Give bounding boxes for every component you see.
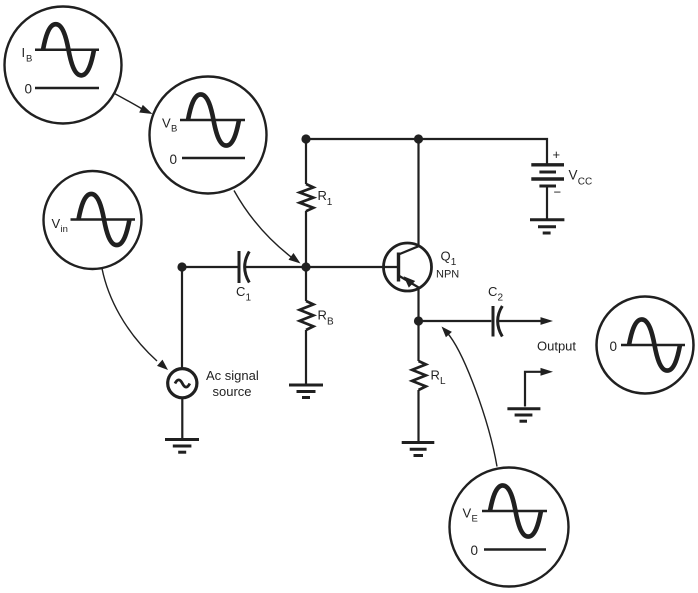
svg-text:NPN: NPN bbox=[436, 269, 459, 281]
node base (junction R1/RB/base) bbox=[301, 262, 310, 271]
wire ac source to ground bbox=[181, 399, 183, 439]
svg-text:0: 0 bbox=[610, 339, 618, 354]
waveform circle output bbox=[597, 297, 694, 394]
label RL bbox=[431, 368, 447, 388]
svg-text:V: V bbox=[52, 216, 61, 231]
wire input node to C1 bbox=[182, 266, 238, 268]
node B (top of collector) bbox=[414, 134, 423, 143]
label VCC bbox=[569, 168, 593, 188]
svg-text:I: I bbox=[22, 45, 26, 60]
svg-text:B: B bbox=[327, 317, 334, 328]
wire emitter node to C2 bbox=[419, 320, 492, 322]
capacitor C2 bbox=[492, 306, 495, 337]
svg-text:1: 1 bbox=[327, 197, 333, 208]
label Q1 NPN bbox=[436, 249, 459, 281]
svg-text:L: L bbox=[440, 376, 446, 387]
svg-text:CC: CC bbox=[578, 177, 592, 188]
transistor Q1 bbox=[384, 243, 432, 291]
label C2 bbox=[488, 284, 504, 304]
svg-text:E: E bbox=[472, 514, 478, 525]
wire collector bbox=[417, 139, 419, 246]
label + bbox=[553, 147, 561, 162]
wire top rail with corner to battery bbox=[306, 139, 547, 164]
svg-text:V: V bbox=[569, 168, 578, 183]
label R1 bbox=[318, 188, 333, 208]
waveform circle VE bbox=[450, 468, 569, 587]
arrow IB to VB bbox=[115, 94, 143, 109]
svg-text:B: B bbox=[26, 54, 32, 65]
svg-text:1: 1 bbox=[451, 257, 457, 268]
svg-text:0: 0 bbox=[471, 543, 479, 558]
svg-text:0: 0 bbox=[170, 152, 178, 167]
resistor RL bbox=[412, 361, 426, 390]
svg-text:+: + bbox=[553, 147, 561, 162]
wire RL top lead bbox=[417, 321, 419, 361]
resistor RB bbox=[300, 301, 314, 330]
svg-text:C: C bbox=[236, 284, 245, 299]
ground under RB bbox=[289, 385, 323, 398]
wire RL bottom lead bbox=[417, 390, 419, 442]
waveform circle VB bbox=[150, 77, 267, 194]
capacitor C1 bbox=[238, 251, 241, 283]
wire C1 to base bbox=[245, 266, 398, 268]
label Ac signal source bbox=[206, 368, 259, 399]
svg-text:C: C bbox=[488, 284, 497, 299]
wire battery to ground bbox=[546, 186, 548, 219]
wire R1 bottom lead bbox=[305, 211, 307, 267]
ground under ac source bbox=[165, 440, 199, 453]
wire RB bottom lead bbox=[305, 330, 307, 385]
svg-text:Output: Output bbox=[537, 339, 576, 354]
label Output bbox=[537, 339, 576, 354]
node A (top of R1) bbox=[301, 134, 310, 143]
svg-text:1: 1 bbox=[246, 293, 252, 304]
svg-text:source: source bbox=[213, 384, 252, 399]
label C1 bbox=[236, 284, 252, 304]
svg-text:0: 0 bbox=[25, 82, 33, 97]
arrow VB to base node bbox=[234, 191, 292, 258]
label minus bbox=[554, 185, 562, 200]
svg-text:R: R bbox=[318, 188, 327, 203]
arrow Vin to ac source bbox=[102, 269, 157, 362]
node emitter bbox=[414, 316, 423, 325]
label RB bbox=[318, 308, 335, 328]
arrow VE to emitter node bbox=[447, 333, 497, 467]
ground under RL bbox=[402, 443, 435, 456]
node input (left) bbox=[177, 262, 186, 271]
svg-text:Ac signal: Ac signal bbox=[206, 368, 259, 383]
wire emitter bbox=[417, 288, 419, 321]
battery VCC bbox=[531, 165, 564, 179]
wire RB top lead bbox=[305, 267, 307, 301]
output reference arrow bbox=[525, 372, 541, 407]
ground under battery bbox=[530, 220, 564, 233]
svg-text:R: R bbox=[431, 368, 440, 383]
svg-text:Q: Q bbox=[441, 249, 451, 264]
svg-text:in: in bbox=[61, 224, 68, 235]
ground output reference bbox=[507, 409, 540, 422]
wire output with arrow bbox=[498, 320, 541, 322]
svg-text:V: V bbox=[463, 506, 472, 521]
waveform circle IB bbox=[5, 7, 122, 124]
ac source V1 bbox=[168, 369, 197, 398]
resistor R1 bbox=[300, 184, 314, 211]
svg-text:2: 2 bbox=[498, 293, 504, 304]
wire input node down to ac source bbox=[181, 267, 183, 368]
svg-text:R: R bbox=[318, 308, 327, 323]
svg-text:B: B bbox=[171, 124, 177, 135]
waveform circle Vin bbox=[44, 171, 142, 269]
svg-text:V: V bbox=[162, 116, 171, 131]
svg-text:−: − bbox=[554, 185, 562, 200]
wire R1 top lead bbox=[305, 139, 307, 184]
